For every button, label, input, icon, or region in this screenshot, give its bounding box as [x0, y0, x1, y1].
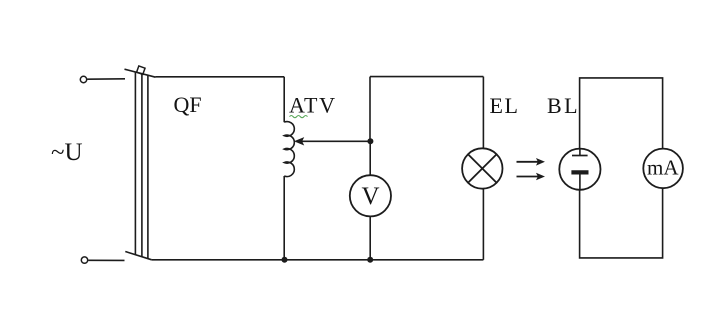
junction node V bottom — [367, 257, 373, 263]
wire below lamp — [482, 189, 484, 260]
wire below coil — [283, 176, 285, 260]
photocell inner top lead — [579, 149, 581, 156]
wire V branch upper — [369, 77, 371, 142]
junction node wiper/V — [367, 138, 373, 144]
photocell thin plate — [572, 155, 588, 157]
breaker QF top blade — [125, 69, 156, 77]
wire top stub — [87, 78, 125, 80]
lamp EL X diagonal 2 — [468, 154, 497, 183]
wire bottom stub — [88, 259, 124, 261]
breaker linkage line 2 — [141, 74, 143, 257]
BL loop bottom wire — [580, 188, 663, 258]
light ray arrow 2 head — [537, 173, 545, 179]
photocell inner bottom lead — [579, 172, 581, 189]
light ray arrow 1 shaft — [517, 161, 539, 163]
autotransformer ATV coil — [284, 122, 294, 177]
ATV wiper arrow shaft — [301, 140, 370, 142]
photocell thick plate — [571, 170, 588, 174]
spellcheck squiggle under ATV — [290, 116, 308, 118]
breaker linkage line 1 — [134, 72, 136, 255]
wire EL drop — [482, 77, 484, 149]
junction node ATV bottom — [282, 257, 288, 263]
wire V mid — [369, 141, 371, 175]
wire ATV drop — [283, 77, 285, 122]
terminal top — [80, 76, 86, 82]
svg-text:V: V — [362, 183, 380, 210]
BL loop top wire — [580, 78, 663, 149]
terminal bottom — [81, 257, 87, 263]
svg-text:mA: mA — [647, 156, 679, 180]
svg-text:~U: ~U — [51, 139, 83, 166]
wire bottom horizontal — [152, 259, 484, 261]
lamp EL circle — [462, 148, 502, 188]
photocell BL circle — [559, 149, 600, 190]
light ray arrow 2 shaft — [517, 176, 539, 178]
breaker inner vertical line — [147, 75, 149, 258]
wire below V — [369, 216, 371, 259]
wire top of V-EL loop — [370, 76, 483, 78]
breaker QF bottom blade — [125, 252, 151, 260]
light ray arrow 1 head — [537, 159, 545, 165]
svg-text:ATV: ATV — [289, 93, 337, 118]
lamp EL X diagonal 1 — [468, 154, 497, 183]
breaker QF blade square — [137, 66, 145, 74]
voltmeter V circle — [350, 175, 391, 216]
svg-text:BL: BL — [547, 93, 580, 118]
milliammeter mA circle — [643, 149, 683, 189]
svg-text:QF: QF — [174, 92, 202, 117]
wire top horizontal — [156, 76, 285, 78]
svg-text:EL: EL — [490, 93, 520, 118]
ATV wiper arrowhead — [295, 138, 304, 145]
